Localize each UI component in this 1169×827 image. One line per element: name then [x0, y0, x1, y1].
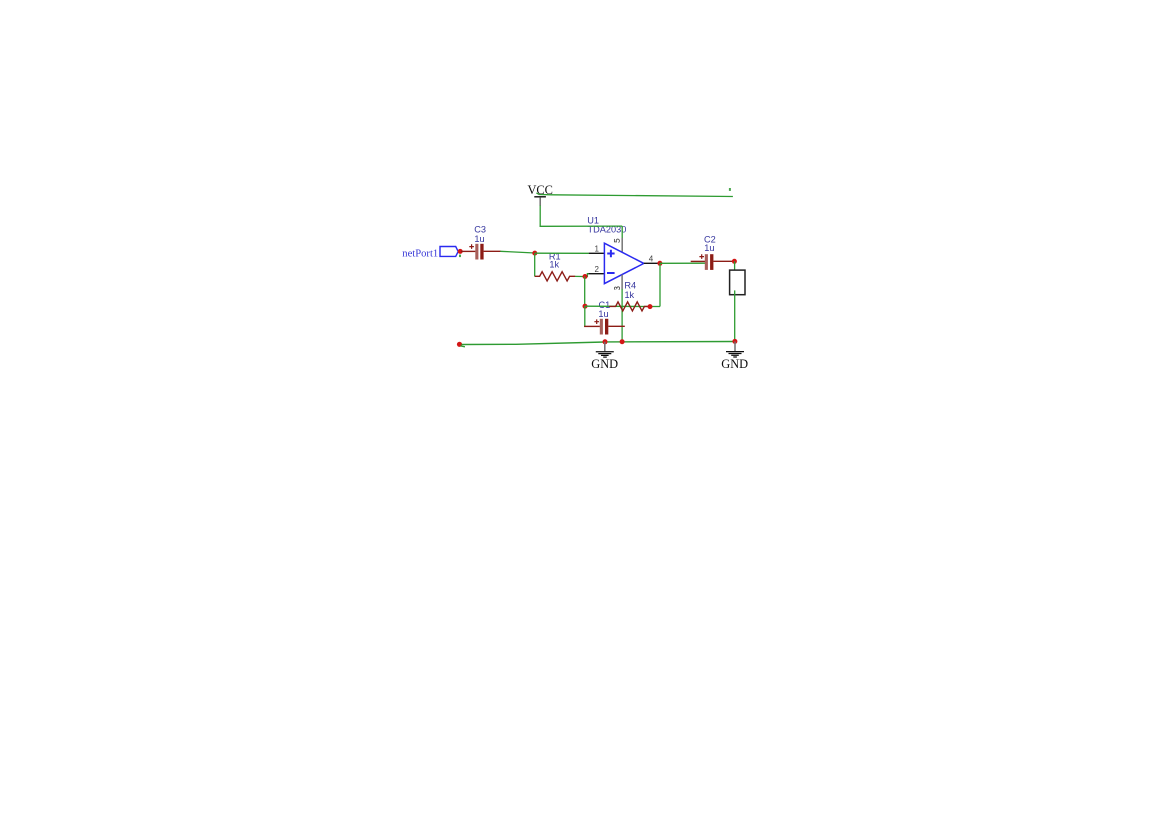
node R4 right junction dot	[648, 304, 653, 309]
resistor R4 body	[609, 302, 648, 311]
resistor R1 body	[535, 272, 576, 281]
ground GND left stem	[604, 342, 606, 352]
capacitor C1 lead left	[584, 325, 600, 327]
wire VCC horizontal to pin5	[540, 225, 623, 227]
wire VCC stem down	[539, 205, 541, 227]
port green tick	[459, 255, 461, 258]
node output junction dot	[657, 261, 662, 266]
svg-text:netPort1: netPort1	[402, 248, 438, 259]
capacitor C3 plate right	[480, 244, 483, 260]
wire output to C2	[660, 262, 705, 264]
svg-text:GND: GND	[721, 357, 748, 371]
wire load to ground rail	[734, 290, 736, 341]
node ground rail dot A	[603, 339, 608, 344]
pin 1 lead U1	[589, 252, 605, 254]
power flag VCC bar	[534, 196, 546, 198]
wire junction down to R1	[534, 253, 536, 276]
wire R4 feedback span	[585, 305, 648, 307]
capacitor C2 plus sign	[699, 254, 704, 259]
ground GND right stem	[734, 342, 736, 352]
capacitor C2 lead right	[713, 260, 732, 262]
node port junction dot	[458, 249, 463, 254]
svg-text:2: 2	[594, 265, 599, 274]
op-amp U1 triangle	[604, 243, 643, 283]
node ground rail dot C	[732, 339, 737, 344]
node ground rail dot B	[620, 339, 625, 344]
node R4 left junction dot	[583, 304, 588, 309]
wire R4 junction down to C1	[584, 306, 586, 327]
wire pin2 junction down	[584, 277, 586, 307]
svg-text:4: 4	[649, 255, 654, 264]
wire R1 to junction	[575, 275, 584, 277]
capacitor C2 plate left	[705, 254, 708, 270]
wire down to pin 5	[621, 226, 623, 238]
capacitor C3 plus sign	[469, 244, 474, 249]
wire stub at rail left end	[460, 345, 465, 348]
pin 4 lead U1	[644, 262, 658, 264]
capacitor C3 lead right	[484, 250, 501, 252]
ground GND right bars	[726, 352, 744, 357]
wire junction to pin1	[535, 252, 589, 254]
capacitor C1 plus sign	[594, 319, 599, 324]
node C2 output junction dot	[732, 259, 737, 264]
wire bottom rail sloped	[462, 342, 605, 345]
svg-text:1k: 1k	[549, 260, 559, 270]
pin 2 lead U1	[589, 273, 605, 275]
node input junction dot	[532, 251, 537, 256]
wire C3 to junction	[500, 251, 535, 253]
svg-text:1u: 1u	[598, 309, 608, 319]
svg-text:1: 1	[594, 244, 599, 253]
op-amp plus input mark	[607, 250, 614, 257]
svg-text:1u: 1u	[704, 243, 714, 253]
pin 5 stub U1	[621, 238, 623, 252]
wire VCC top horizontal	[536, 193, 733, 197]
port netPort1 symbol	[440, 247, 458, 257]
pin number 3 (rotated)	[614, 287, 619, 290]
capacitor C1 plate right	[605, 319, 608, 335]
node bottom rail left dot	[457, 342, 462, 347]
load resistor body	[730, 270, 745, 295]
wire stub tick top right	[729, 188, 731, 191]
wire output down	[659, 263, 661, 306]
svg-text:C3: C3	[474, 224, 486, 234]
capacitor C3 lead left	[461, 250, 475, 252]
capacitor C2 plate right	[710, 254, 713, 270]
wire R1 to pin2 jog	[586, 274, 589, 277]
pin number 5 (rotated)	[614, 239, 619, 242]
wire output bottom to R4	[650, 306, 660, 308]
node R1 right junction dot	[583, 274, 588, 279]
wire C2 junction down to load	[734, 261, 736, 271]
svg-text:1u: 1u	[474, 234, 484, 244]
power flag VCC stem	[539, 197, 541, 206]
capacitor C3 plate left	[475, 244, 478, 260]
svg-text:GND: GND	[591, 357, 618, 371]
pin 3 stub U1	[621, 275, 623, 290]
op-amp minus input mark	[607, 272, 615, 274]
capacitor C1 plate left	[600, 319, 603, 335]
wire pin3 down to ground rail	[621, 289, 623, 342]
wire bottom rail right	[604, 341, 734, 343]
capacitor C1 lead right	[608, 325, 625, 327]
svg-text:1k: 1k	[624, 290, 634, 300]
capacitor C2 lead left	[691, 260, 705, 262]
ground GND left bars	[596, 352, 614, 357]
